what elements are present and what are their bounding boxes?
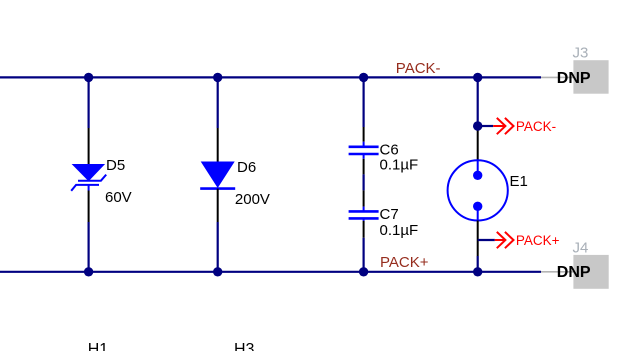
svg-text:E1: E1 (510, 173, 528, 190)
wire D6 bottom (217, 222, 219, 272)
junction dot PACK- tap (473, 121, 482, 130)
pin C6 top (363, 127, 365, 142)
wire C6-C7 (363, 174, 365, 190)
svg-text:J4: J4 (573, 240, 589, 257)
wire PACK+ tap (478, 239, 495, 241)
capacitor C7 (349, 207, 379, 221)
pin C7 bottom (363, 221, 365, 238)
pin D6 cathode (217, 189, 219, 222)
pin C6 bottom (363, 159, 365, 175)
svg-text:PACK+: PACK+ (380, 254, 429, 271)
junction dot D6 top (213, 73, 222, 82)
wire E1 bottom (477, 256, 479, 272)
off-page connector PACK- (493, 118, 513, 134)
pin D5 anode (88, 128, 90, 164)
svg-text:J3: J3 (573, 44, 589, 61)
pin C7 top (363, 190, 365, 206)
connector J3 body (DNP) (573, 60, 608, 93)
connector J3 pin (greyed) (541, 76, 574, 78)
pin E1 top (477, 126, 479, 160)
capacitor C6 (349, 142, 379, 159)
off-page connector PACK+ (495, 232, 514, 248)
svg-text:PACK+: PACK+ (516, 233, 560, 248)
wire PACK- tap (478, 125, 494, 127)
svg-text:0.1µF: 0.1µF (380, 156, 419, 173)
connector E1 (448, 160, 508, 220)
svg-text:H1: H1 (88, 341, 109, 351)
svg-text:PACK-: PACK- (396, 60, 441, 77)
svg-text:DNP: DNP (557, 70, 591, 87)
wire C7 bottom (363, 238, 365, 272)
svg-text:PACK-: PACK- (516, 119, 556, 134)
junction dot D5 bottom (84, 267, 93, 276)
junction dot E1 bottom bus (473, 267, 482, 276)
connector J4 body (DNP) (573, 255, 608, 289)
svg-text:DNP: DNP (557, 264, 591, 281)
svg-text:60V: 60V (105, 189, 132, 206)
wire top PACK- bus (0, 76, 541, 78)
zener diode D5 (71, 164, 106, 191)
wire D5 bottom (87, 222, 89, 272)
svg-text:0.1µF: 0.1µF (380, 222, 419, 239)
svg-text:D5: D5 (106, 157, 125, 174)
junction dot C6 top (359, 73, 368, 82)
junction dot D6 bottom (213, 267, 222, 276)
diode D6 (200, 162, 235, 189)
wire D5 top (87, 77, 89, 128)
wire D6 top (217, 77, 219, 128)
pin D5 cathode (88, 191, 90, 223)
junction dot C7 bottom (359, 267, 368, 276)
wire bottom PACK+ bus (0, 271, 541, 273)
svg-text:H3: H3 (234, 341, 255, 351)
svg-text:200V: 200V (235, 191, 270, 208)
junction dot D5 top (84, 73, 93, 82)
pin D6 anode (217, 128, 219, 162)
pin E1 bottom (477, 221, 479, 257)
wire E1 top (477, 77, 479, 126)
connector J4 pin (greyed) (541, 271, 574, 273)
svg-text:D6: D6 (237, 159, 256, 176)
svg-text:C7: C7 (380, 206, 399, 223)
wire C6 top (363, 77, 365, 127)
junction dot E1 top bus (473, 73, 482, 82)
